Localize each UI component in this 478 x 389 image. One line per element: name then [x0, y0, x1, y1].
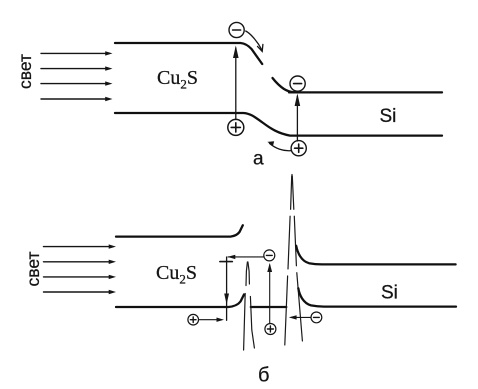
electron drift arrow (horizontal, E4 to spike) [289, 315, 311, 319]
svg-text:б: б [258, 365, 269, 387]
curved hole transfer arrow (a) [267, 141, 291, 151]
hole circle H2 (plus, below Si band bend) [291, 141, 306, 156]
valence band segment between spikes (б) [251, 306, 286, 308]
electron circle E3 (minus, at big spike) [264, 250, 275, 261]
light arrow b2 [44, 260, 117, 264]
light arrow b1 [44, 244, 117, 248]
Cu2S valence band (б) with upward curl [116, 295, 244, 308]
photogeneration arrow A3 (vertical, up to E3) [267, 263, 272, 323]
electron circle E4 (minus, in Si) [311, 312, 322, 323]
svg-text:свет: свет [23, 251, 43, 286]
light arrow a2 [41, 66, 113, 70]
light arrow b3 [44, 275, 117, 279]
hole circle H4 (plus, in Cu2S) [188, 314, 199, 325]
small interface spike left line [244, 262, 248, 350]
curved electron transfer arrow (a) [246, 31, 263, 51]
small interface spike right line [248, 262, 255, 348]
svg-text:Si: Si [381, 283, 398, 304]
hole circle H3 (plus, below valence band between spikes) [265, 324, 276, 335]
light arrow a1 [41, 51, 113, 55]
Cu2S conduction band (б) with upward curl [116, 225, 243, 236]
recombination arrow (vertical, down through trap) [224, 257, 229, 320]
light arrow b4 [44, 290, 117, 294]
light arrow a3 [41, 81, 113, 85]
Si conduction band (б) with decay from spike [296, 246, 455, 265]
light arrow a4 [41, 97, 113, 101]
svg-text:a: a [253, 149, 264, 170]
Si valence band (б) with decay from spike [298, 288, 456, 306]
electron circle E2 (minus, on Si conduction band) [290, 76, 305, 91]
svg-text:свет: свет [15, 54, 35, 89]
Cu2S conduction band (a) with downward bend [115, 43, 262, 64]
svg-text:Si: Si [380, 106, 397, 127]
big interface spike left line [285, 175, 292, 346]
svg-text:Cu2S: Cu2S [156, 262, 197, 287]
photogeneration arrow A1 (vertical, VB to CB) [233, 46, 239, 120]
big interface spike right line [292, 176, 302, 341]
Si conduction band (a) [289, 91, 442, 93]
electron capture arrow (horizontal, to interface) [227, 255, 263, 259]
electron circle E1 (minus, top of Cu2S barrier) [229, 22, 244, 37]
hole drift arrow (horizontal, H4 to interface) [199, 318, 224, 322]
photogeneration arrow A2 (vertical, Si VB to CB) [295, 94, 301, 142]
conduction band lower slope segment (a) [273, 78, 295, 92]
hole circle H1 (plus, on Cu2S valence band) [228, 119, 244, 135]
svg-text:Cu2S: Cu2S [157, 67, 198, 92]
interface trap level dash [220, 261, 232, 263]
Cu2S valence band bending into Si valence band (a) [115, 113, 442, 136]
